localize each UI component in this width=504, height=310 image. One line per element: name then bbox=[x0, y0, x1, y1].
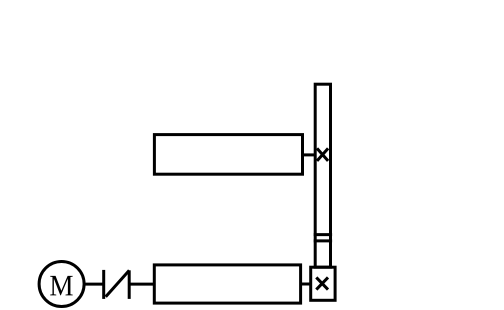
wire lower gearbox to bearing block bbox=[301, 283, 311, 286]
bearing X on shaft bbox=[317, 148, 328, 161]
wire motor to clutch bbox=[84, 283, 104, 286]
clutch diagonal bbox=[106, 270, 130, 296]
lower gearbox rectangle bbox=[154, 265, 300, 303]
wire upper gearbox to shaft bbox=[303, 153, 316, 156]
clutch left bar bbox=[102, 270, 105, 299]
vertical shaft (tall rectangle) bbox=[315, 84, 330, 267]
clutch right bar bbox=[128, 270, 131, 299]
motor M (circle) bbox=[39, 262, 84, 307]
shaft coupling line 2 bbox=[314, 239, 332, 242]
shaft coupling line 1 bbox=[314, 233, 332, 236]
upper gearbox rectangle bbox=[154, 135, 302, 175]
motor label M bbox=[50, 276, 72, 295]
bearing X in block bbox=[316, 277, 328, 289]
bearing block (square) bbox=[311, 267, 335, 300]
wire clutch to lower gearbox bbox=[129, 283, 154, 286]
